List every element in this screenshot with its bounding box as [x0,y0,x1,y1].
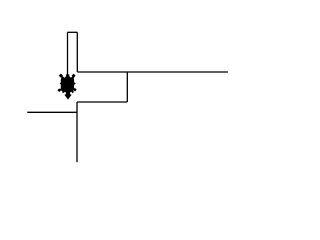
marker SE spike stem [72,87,76,91]
marker NE diamond [72,74,76,78]
marker SSE bump [71,91,74,94]
wire: left leg of open loop down to marker [67,32,69,77]
marker NE stem [70,76,74,80]
marker SE spike head [73,88,76,92]
wire: lower horizontal segment [77,101,127,103]
marker: bug/DRC blob symbol on left wire [57,74,76,100]
wire: vertical segment [76,102,78,162]
marker south arrow [65,91,72,100]
marker wire shoulder [66,74,69,77]
wire: branch down from T-junction [126,72,128,102]
marker NW stem [61,76,65,80]
marker NW diamond [59,74,63,78]
marker SW spike head [57,88,61,92]
wire: right leg of open loop [76,32,78,72]
marker SSW bump [62,91,65,94]
marker body (wide rounded block) [61,77,74,93]
marker top notches (white) [63,76,66,78]
wire: loop top [68,31,78,33]
marker SW spike stem [59,87,63,91]
marker west nub [60,82,63,85]
marker east nub [73,82,76,85]
wire: main horizontal net [77,71,228,73]
wire: left stub [27,111,77,113]
